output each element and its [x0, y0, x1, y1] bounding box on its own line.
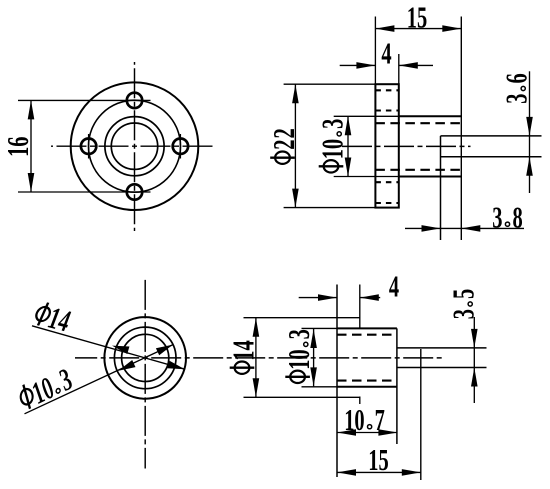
- small part circle phi10.3: [114, 327, 176, 389]
- small flange top edge: [244, 317, 360, 319]
- svg-text:4: 4: [226, 340, 260, 350]
- stub top edge: [441, 135, 542, 137]
- svg-text:1: 1: [315, 149, 349, 159]
- dimension 4 text: [381, 36, 391, 70]
- hidden hole top line: [375, 122, 461, 124]
- extension line 15 left: [374, 17, 376, 85]
- leader line phi14: [32, 326, 185, 369]
- svg-text:1: 1: [226, 350, 260, 360]
- dimension phi22 text: [267, 128, 301, 164]
- svg-text:1: 1: [407, 1, 417, 35]
- bolt hole bottom: [127, 184, 142, 199]
- stub bottom edge: [441, 156, 542, 158]
- dimension 4 bottom text: [389, 269, 399, 303]
- dimension phi10.3 bottom text: [282, 329, 316, 383]
- body right end line: [460, 17, 462, 241]
- dimension 15 bottom line: [337, 471, 421, 473]
- small part hole circle phi8: [122, 334, 169, 381]
- small part horizontal centerline: [75, 357, 445, 359]
- dimension 3.8 line: [405, 227, 524, 229]
- svg-text:7: 7: [375, 403, 385, 437]
- dimension phi22 line: [294, 84, 296, 207]
- small hidden hole bottom: [337, 380, 397, 382]
- dimension 3.6 text: [499, 73, 533, 103]
- small body right end: [396, 328, 398, 444]
- dimension phi10.3 side text: [315, 119, 349, 173]
- small flange bottom edge: [244, 396, 361, 398]
- bolt hole right: [173, 139, 188, 154]
- dimension 15 text: [407, 1, 427, 35]
- small body bottom edge: [302, 386, 338, 388]
- hidden bolt hole top lines: [375, 89, 398, 91]
- dimension 4 bottom arrows: [299, 297, 337, 299]
- small flange right edge segments: [359, 285, 361, 329]
- svg-text:3: 3: [315, 119, 349, 129]
- label phi10.3 text: [12, 362, 77, 417]
- svg-text:3: 3: [446, 309, 480, 319]
- flange outer circle phi22: [71, 82, 199, 210]
- svg-text:2: 2: [267, 139, 301, 149]
- svg-text:1: 1: [344, 403, 354, 437]
- front view horizontal centerline: [51, 145, 216, 147]
- hidden hole bottom line: [375, 169, 461, 171]
- body bottom edge: [334, 176, 399, 178]
- dimension phi10.3 side line: [347, 116, 349, 176]
- svg-text:8: 8: [512, 200, 522, 234]
- extension lines phi22: [284, 83, 376, 85]
- svg-text:3: 3: [499, 93, 533, 103]
- leader line phi10.3: [25, 345, 174, 414]
- svg-text:3: 3: [282, 329, 316, 339]
- body top edge: [334, 115, 399, 117]
- dimension 10.7 text: [344, 403, 385, 437]
- stub left vertical and 3.8 extension: [440, 136, 442, 240]
- dimension 15 line: [375, 28, 461, 30]
- bolt circle phi16: [89, 100, 181, 192]
- small stub right vertical and 15 extension: [420, 349, 422, 480]
- extension line top bolt hole: [18, 99, 151, 101]
- svg-text:6: 6: [1, 136, 35, 146]
- dimension 4 arrows: [340, 64, 376, 66]
- svg-text:2: 2: [267, 128, 301, 138]
- small part vertical centerline: [144, 279, 146, 469]
- flange rectangle: [375, 84, 398, 207]
- extension line bottom bolt hole: [18, 191, 151, 193]
- svg-text:5: 5: [378, 443, 388, 477]
- dimension 3.6 line: [529, 71, 531, 193]
- svg-text:6: 6: [499, 73, 533, 83]
- svg-text:5: 5: [417, 1, 427, 35]
- side view centerline: [342, 145, 471, 147]
- svg-text:3: 3: [492, 200, 502, 234]
- svg-text:0: 0: [282, 349, 316, 359]
- dimension 16 text: [1, 136, 35, 156]
- dimension 3.8 text: [492, 200, 522, 234]
- svg-text:4: 4: [389, 269, 399, 303]
- small part outer circle phi14: [104, 317, 186, 399]
- bolt hole top: [127, 93, 142, 108]
- bolt hole left: [81, 139, 96, 154]
- label phi14 text: [30, 297, 73, 339]
- small stub bottom edge: [397, 367, 487, 369]
- small body left edge: [336, 285, 338, 478]
- dimension phi14 bottom line: [255, 318, 257, 398]
- small stub top edge: [397, 347, 487, 349]
- front view vertical centerline: [134, 62, 136, 231]
- svg-text:1: 1: [368, 443, 378, 477]
- small hidden hole top: [337, 334, 397, 336]
- extension line 4 right: [398, 54, 400, 84]
- svg-text:4: 4: [381, 36, 391, 70]
- dimension 3.5 line: [473, 317, 475, 403]
- svg-text:1: 1: [1, 147, 35, 157]
- hidden bolt hole bottom lines: [375, 181, 398, 183]
- body circle phi10.3: [105, 117, 164, 176]
- small body top edge: [302, 327, 338, 329]
- svg-text:5: 5: [446, 289, 480, 299]
- svg-text:1: 1: [282, 360, 316, 370]
- dimension 16 line: [30, 100, 32, 192]
- dimension phi14 bottom text: [226, 340, 260, 374]
- dimension phi10.3 bottom line: [313, 329, 315, 386]
- svg-text:0: 0: [315, 139, 349, 149]
- dimension 3.5 text: [446, 289, 480, 319]
- svg-text:0: 0: [354, 403, 364, 437]
- thread hole circle phi8: [111, 123, 157, 169]
- dimension 10.7 line: [337, 432, 397, 434]
- dimension 15 bottom text: [368, 443, 388, 477]
